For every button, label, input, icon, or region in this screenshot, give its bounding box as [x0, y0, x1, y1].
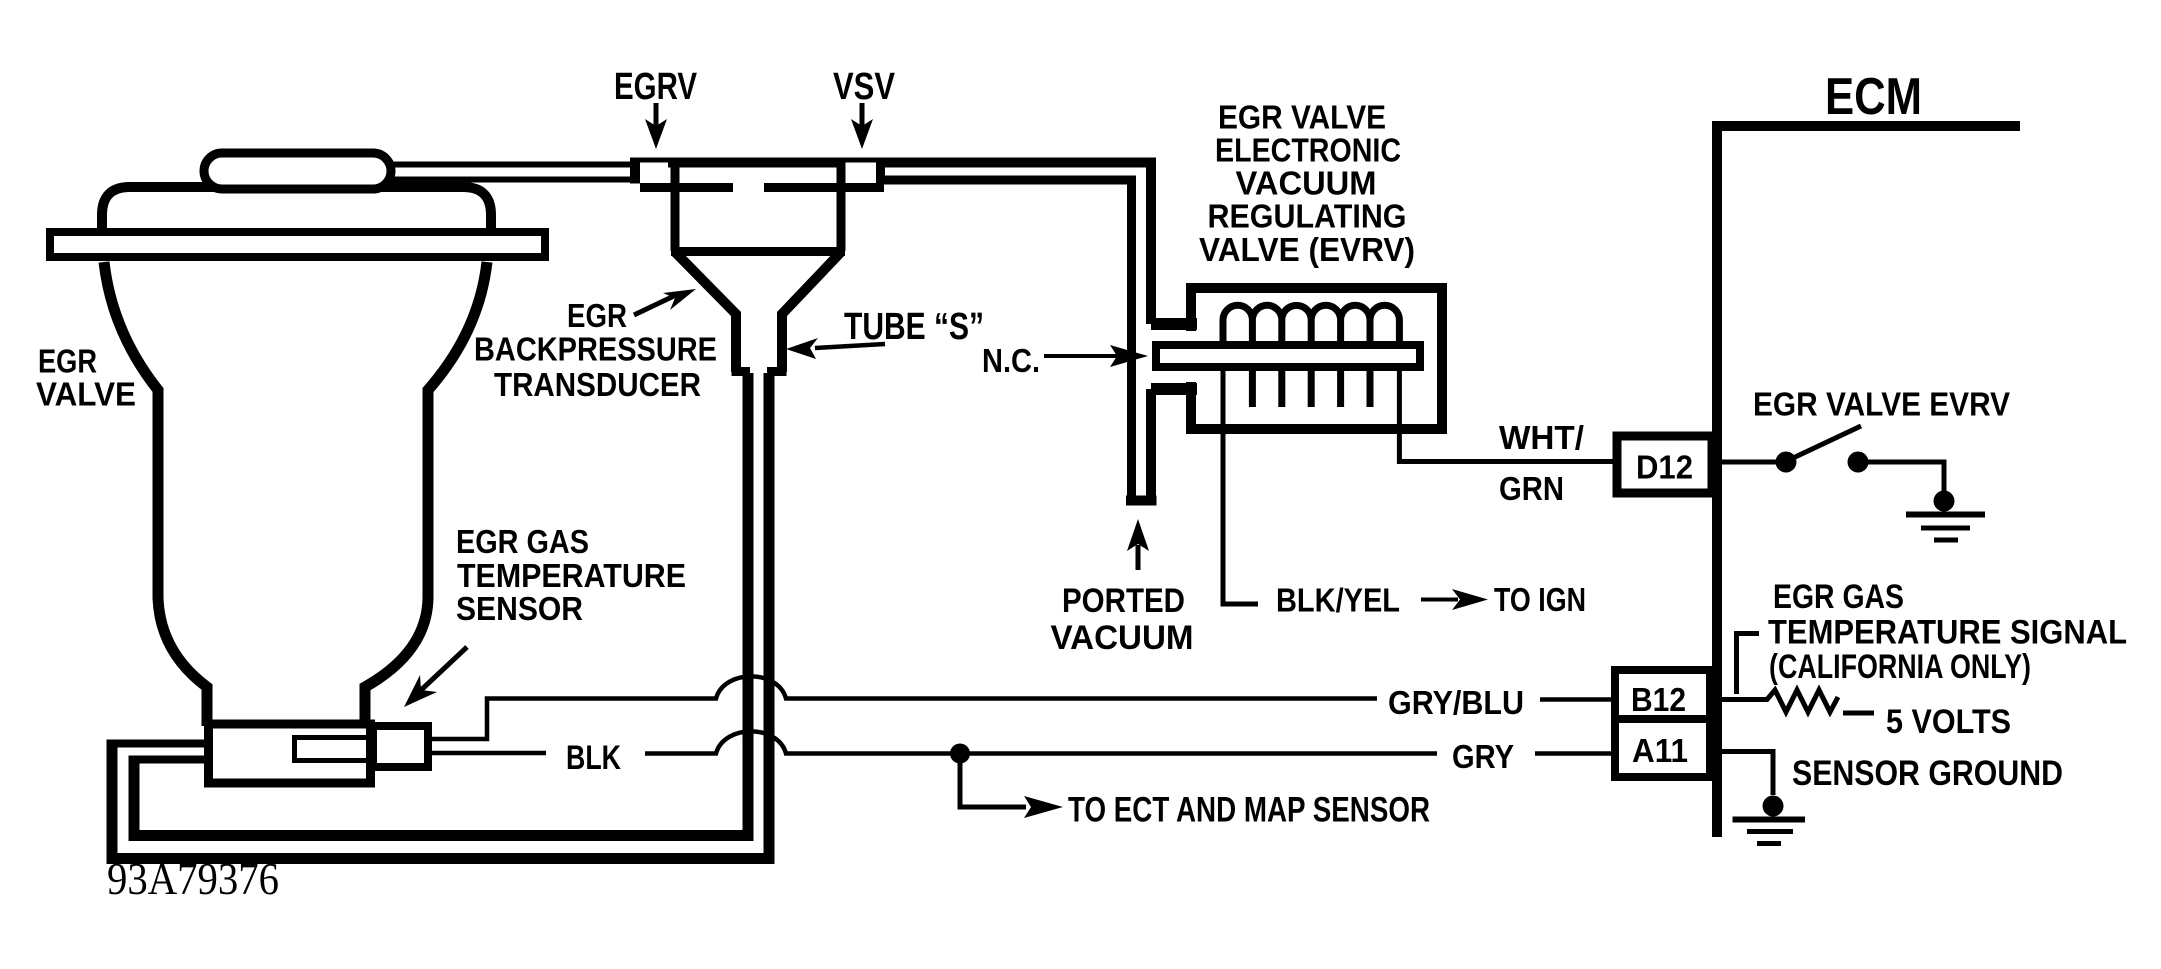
terminal A11: [1615, 719, 1710, 777]
svg-text:GRN: GRN: [1499, 470, 1564, 507]
wire BLK/GRY to A11: [645, 731, 1437, 753]
svg-text:TEMPERATURE: TEMPERATURE: [457, 557, 686, 594]
svg-text:BLK/YEL: BLK/YEL: [1276, 582, 1400, 619]
transducer chamber right wall: [837, 160, 846, 251]
arrow to transducer: [634, 295, 676, 315]
stem bottom nub right: [767, 367, 787, 376]
svg-text:VACUUM: VACUUM: [1236, 165, 1377, 202]
EGR valve body left side: [104, 262, 207, 726]
svg-text:TRANSDUCER: TRANSDUCER: [494, 366, 701, 403]
svg-text:REGULATING: REGULATING: [1208, 198, 1407, 235]
transducer lid right cap: [876, 158, 885, 184]
ground EVRV: [1906, 512, 1985, 518]
arrow ported vacuum: [1136, 545, 1141, 570]
ground dot A11: [1763, 796, 1784, 817]
switch contact right: [1848, 452, 1869, 473]
EVRV coil: [1223, 305, 1399, 347]
EGR valve dome: [102, 187, 491, 240]
svg-text:D12: D12: [1636, 449, 1693, 486]
wire switch to ground: [1868, 462, 1944, 492]
EGR valve flange: [50, 232, 545, 257]
svg-text:EGR VALVE EVRV: EGR VALVE EVRV: [1753, 386, 2010, 423]
sensor slot: [295, 738, 369, 761]
arrow tube S: [815, 344, 885, 348]
svg-text:GRY: GRY: [1452, 738, 1514, 775]
transducer EGRV port: [640, 163, 668, 184]
vacuum tube transducer to EVRV outer: [880, 163, 1151, 325]
ported vacuum pipe bottom cap: [1126, 496, 1157, 506]
svg-text:A11: A11: [1632, 732, 1688, 769]
EGR gas temperature sensor housing: [209, 724, 371, 783]
transducer inner dash right: [764, 183, 884, 192]
arrow N.C.: [1044, 354, 1122, 358]
svg-text:EGR VALVE: EGR VALVE: [1218, 99, 1386, 136]
EVRV coil tails: [1252, 370, 1370, 407]
arrow EGRV: [654, 103, 659, 128]
switch arm: [1793, 426, 1861, 458]
svg-text:SENSOR: SENSOR: [456, 590, 583, 627]
wire BLK/YEL from coil: [1223, 369, 1258, 604]
arrow BLK/YEL to IGN: [1421, 598, 1458, 602]
arrow VSV: [860, 103, 865, 128]
wire A11 to sensor ground: [1722, 752, 1773, 796]
junction dot: [950, 744, 970, 764]
svg-text:VSV: VSV: [833, 66, 896, 108]
svg-text:N.C.: N.C.: [982, 342, 1040, 379]
wire exhaust tube outer (EGR valve base to tube S riser): [112, 373, 769, 859]
stem bottom nub left: [732, 367, 751, 376]
EGR valve body right side: [365, 262, 487, 726]
ported vacuum pipe right wall lower: [1146, 389, 1156, 496]
transducer VSV port: [846, 163, 877, 184]
svg-text:VALVE (EVRV): VALVE (EVRV): [1199, 231, 1415, 268]
ECM top line: [1712, 121, 2020, 131]
arrowhead to ECT/MAP: [1024, 796, 1063, 818]
ground dot EVRV: [1934, 491, 1955, 512]
sensor connector: [373, 726, 428, 767]
svg-text:VACUUM: VACUUM: [1051, 619, 1194, 657]
svg-text:B12: B12: [1631, 681, 1686, 718]
switch contact left: [1776, 452, 1797, 473]
svg-text:BLK: BLK: [566, 739, 621, 777]
svg-text:5 VOLTS: 5 VOLTS: [1886, 703, 2011, 741]
vacuum tube inner: [880, 180, 1132, 496]
wire exhaust tube inner: [134, 373, 748, 836]
wire GRY/BLU sensor to B12: [432, 676, 1377, 739]
EVRV passage bar top: [1151, 318, 1197, 330]
svg-text:93A79376: 93A79376: [107, 854, 279, 904]
svg-text:WHT/: WHT/: [1499, 419, 1584, 456]
transducer chamber bottom: [671, 247, 845, 256]
bracket EGR gas temperature signal: [1737, 634, 1760, 695]
EGR valve cap tube to transducer: [385, 162, 633, 168]
wire WHT/GRN coil to D12: [1399, 369, 1613, 462]
transducer lid: [630, 158, 886, 168]
svg-text:VALVE: VALVE: [36, 376, 136, 413]
svg-text:EGRV: EGRV: [614, 66, 697, 108]
ground A11: [1733, 817, 1806, 823]
svg-text:TUBE “S”: TUBE “S”: [844, 306, 984, 348]
wire BLK sensor segment: [432, 751, 546, 756]
svg-text:ECM: ECM: [1825, 68, 1922, 126]
svg-text:TO ECT AND MAP SENSOR: TO ECT AND MAP SENSOR: [1068, 791, 1430, 830]
svg-text:EGR: EGR: [38, 343, 97, 380]
arrow temperature sensor: [419, 647, 467, 692]
svg-text:TO IGN: TO IGN: [1494, 581, 1586, 618]
ECM vertical line: [1712, 121, 1722, 837]
EVRV switch wire: [1722, 460, 1779, 465]
svg-text:(CALIFORNIA ONLY): (CALIFORNIA ONLY): [1769, 648, 2031, 686]
EVRV box: [1191, 288, 1442, 429]
resistor to 5 volts: [1722, 690, 1838, 712]
EVRV plunger rod: [1156, 345, 1420, 367]
wire branch to ECT/MAP: [960, 754, 1026, 808]
svg-text:BACKPRESSURE: BACKPRESSURE: [474, 331, 717, 368]
svg-text:EGR GAS: EGR GAS: [456, 523, 589, 560]
EVRV passage bar bottom: [1151, 383, 1197, 395]
transducer lid left cap: [630, 158, 640, 184]
svg-text:EGR GAS: EGR GAS: [1773, 578, 1904, 616]
transducer chamber left wall: [671, 160, 680, 251]
svg-text:GRY/BLU: GRY/BLU: [1388, 684, 1524, 721]
transducer inner dash left: [640, 183, 733, 192]
EGR valve cap: [204, 153, 391, 189]
svg-text:EGR: EGR: [567, 297, 627, 334]
terminal B12: [1615, 670, 1710, 719]
transducer funnel right slope: [782, 252, 841, 372]
transducer funnel left slope: [675, 252, 736, 372]
svg-text:SENSOR GROUND: SENSOR GROUND: [1792, 754, 2063, 793]
svg-text:PORTED: PORTED: [1062, 582, 1185, 620]
svg-text:TEMPERATURE SIGNAL: TEMPERATURE SIGNAL: [1768, 614, 2127, 652]
terminal D12: [1617, 436, 1712, 493]
svg-text:ELECTRONIC: ELECTRONIC: [1215, 132, 1401, 169]
